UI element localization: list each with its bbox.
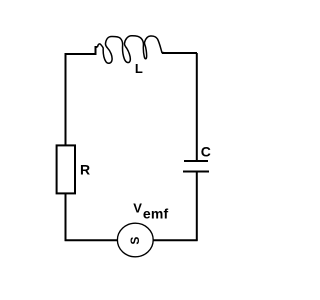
capacitor C1 bottom plate — [183, 171, 209, 173]
capacitor C1 top plate — [184, 160, 208, 162]
inductor L1 coil — [98, 36, 167, 63]
svg-text:L: L — [135, 61, 143, 76]
wire right vertical top (corner down to capacitor) — [196, 53, 198, 161]
svg-text:C: C — [201, 144, 211, 160]
wire left vertical top (top-left corner down to resistor) — [65, 54, 67, 146]
wire top-right horizontal (inductor to top-right corner) — [162, 52, 197, 54]
wire right vertical bottom (capacitor to bottom-right corner) — [196, 172, 198, 241]
wire top-left horizontal (corner to inductor) — [65, 47, 98, 54]
svg-text:S: S — [128, 237, 142, 245]
wire bottom-left horizontal (corner to source) — [65, 239, 118, 241]
resistor R1 box — [57, 145, 75, 193]
svg-text:R: R — [80, 162, 90, 178]
AC source V1 circle — [117, 223, 153, 257]
wire left vertical bottom (resistor to bottom-left corner) — [65, 194, 67, 241]
svg-text:V: V — [133, 200, 142, 215]
wire bottom-right horizontal (source to corner) — [153, 239, 198, 241]
svg-text:emf: emf — [143, 205, 169, 221]
